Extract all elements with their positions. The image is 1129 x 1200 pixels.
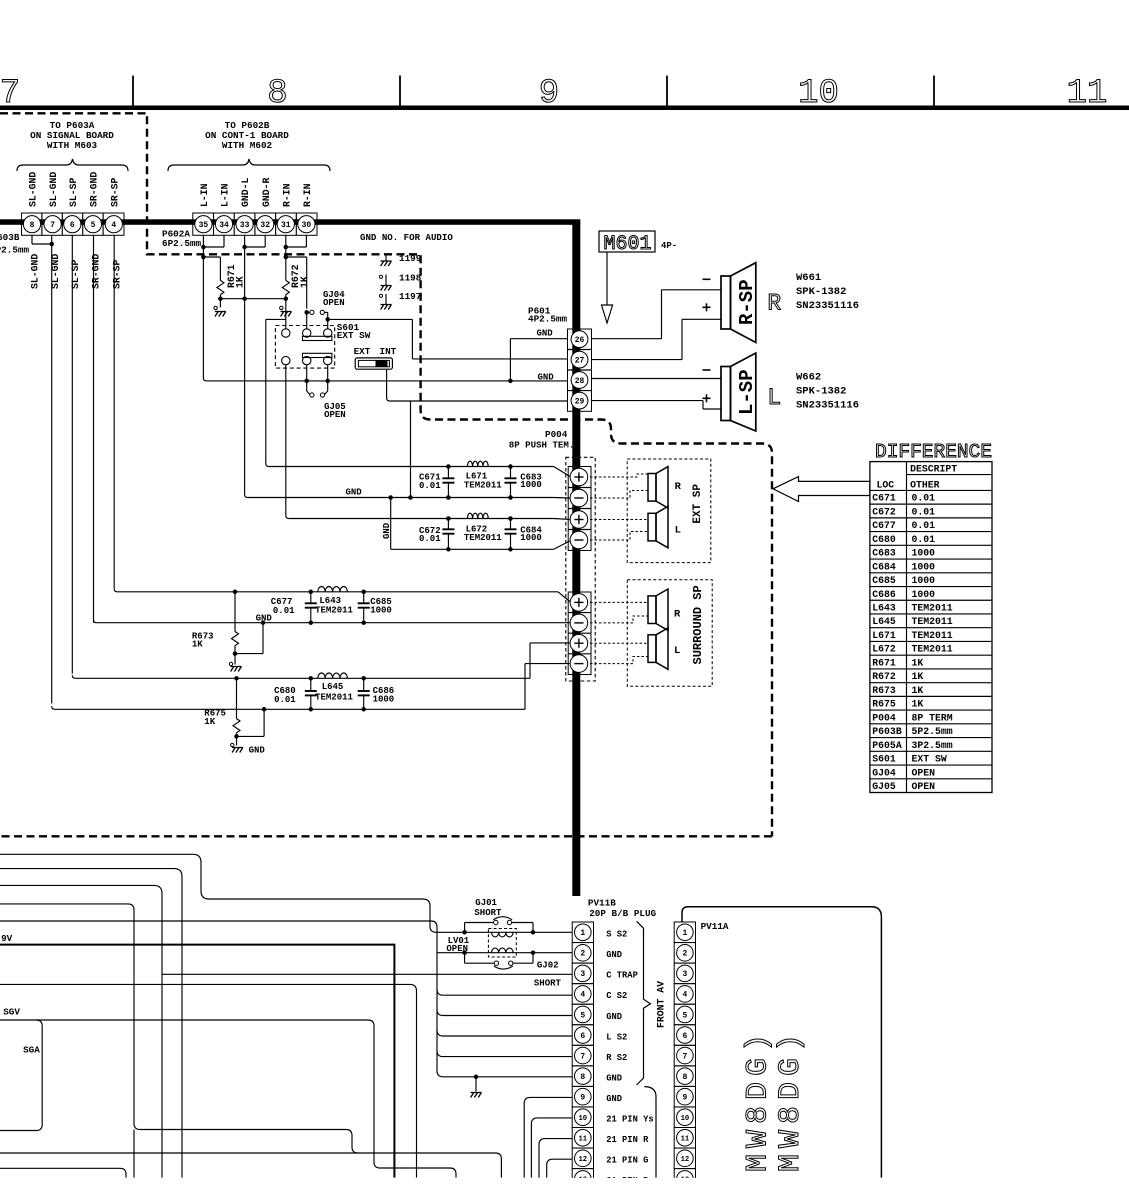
svg-text:OTHER: OTHER: [910, 480, 940, 491]
svg-text:GND: GND: [346, 488, 363, 498]
svg-text:29: 29: [575, 397, 585, 406]
svg-text:0.01: 0.01: [273, 606, 295, 616]
svg-text:C TRAP: C TRAP: [606, 971, 638, 981]
svg-text:GND-R: GND-R: [261, 177, 272, 207]
svg-text:1: 1: [580, 929, 585, 938]
svg-text:DESCRIPT: DESCRIPT: [910, 464, 957, 475]
svg-text:4: 4: [682, 991, 687, 1000]
svg-text:1000: 1000: [373, 694, 395, 704]
svg-text:35: 35: [199, 221, 209, 230]
svg-text:1000: 1000: [912, 575, 936, 586]
svg-text:SR-GND: SR-GND: [89, 172, 100, 207]
svg-text:EXT SP: EXT SP: [692, 484, 704, 524]
svg-text:SL-GND: SL-GND: [48, 172, 59, 207]
svg-text:SL-SP: SL-SP: [70, 259, 81, 289]
svg-text:R: R: [674, 609, 681, 621]
svg-text:6: 6: [682, 1032, 687, 1041]
svg-text:3MW8DG): 3MW8DG): [774, 1028, 808, 1196]
svg-text:27: 27: [575, 356, 585, 365]
svg-text:10: 10: [798, 75, 839, 113]
svg-text:11: 11: [578, 1136, 587, 1144]
svg-text:8P TERM: 8P TERM: [912, 712, 953, 723]
svg-text:SPK-1382: SPK-1382: [796, 286, 846, 298]
svg-text:L-IN: L-IN: [220, 183, 231, 207]
svg-text:W662: W662: [796, 372, 821, 384]
svg-text:C677: C677: [872, 520, 896, 531]
svg-text:SL-SP: SL-SP: [68, 177, 79, 207]
svg-text:1198: 1198: [399, 273, 422, 284]
svg-text:WITH M602: WITH M602: [222, 140, 273, 151]
svg-text:9: 9: [682, 1093, 687, 1102]
svg-text:1000: 1000: [912, 589, 936, 600]
svg-text:TEM2011: TEM2011: [912, 630, 953, 641]
svg-text:GND NO. FOR AUDIO: GND NO. FOR AUDIO: [360, 232, 453, 243]
svg-text:1K: 1K: [299, 276, 310, 288]
svg-text:6: 6: [580, 1032, 585, 1041]
svg-text:C685: C685: [872, 575, 896, 586]
svg-text:R S2: R S2: [606, 1053, 627, 1063]
svg-text:28: 28: [575, 377, 585, 386]
svg-text:SPK-1382: SPK-1382: [796, 386, 846, 398]
svg-text:SR-GND: SR-GND: [91, 254, 102, 289]
svg-text:5: 5: [91, 221, 96, 230]
svg-text:C684: C684: [872, 561, 896, 572]
svg-text:GND: GND: [537, 329, 554, 339]
svg-text:EXT SW: EXT SW: [337, 330, 371, 341]
svg-text:C S2: C S2: [606, 991, 627, 1001]
svg-text:11: 11: [1067, 75, 1108, 113]
svg-text:TEM2011: TEM2011: [464, 533, 502, 543]
svg-text:7: 7: [682, 1052, 687, 1061]
svg-text:GND: GND: [606, 1012, 622, 1022]
svg-text:31: 31: [281, 221, 291, 230]
svg-text:C686: C686: [872, 589, 896, 600]
svg-text:SHORT: SHORT: [474, 908, 502, 918]
svg-text:4: 4: [111, 221, 116, 230]
svg-text:TEM2011: TEM2011: [315, 692, 353, 702]
svg-text:R675: R675: [872, 699, 896, 710]
svg-text:P004: P004: [872, 712, 896, 723]
svg-text:OPEN: OPEN: [324, 410, 346, 420]
svg-text:0.01: 0.01: [912, 534, 936, 545]
svg-text:33: 33: [240, 221, 250, 230]
svg-text:SR-SP: SR-SP: [109, 177, 120, 207]
svg-text:R671: R671: [872, 657, 896, 668]
svg-text:L-SP: L-SP: [736, 369, 758, 415]
svg-text:9: 9: [580, 1093, 585, 1102]
svg-text:0.01: 0.01: [912, 506, 936, 517]
svg-text:21 PIN R: 21 PIN R: [606, 1135, 649, 1145]
svg-text:6: 6: [70, 221, 75, 230]
svg-text:SURROUND SP: SURROUND SP: [691, 585, 705, 664]
svg-text:8: 8: [580, 1073, 585, 1082]
svg-text:1K: 1K: [912, 657, 924, 668]
svg-text:4P2.5mm: 4P2.5mm: [528, 314, 567, 325]
svg-text:1K: 1K: [912, 685, 924, 696]
svg-text:3: 3: [682, 970, 687, 979]
svg-text:0.01: 0.01: [419, 481, 441, 491]
svg-text:1K: 1K: [912, 699, 924, 710]
svg-text:L671: L671: [872, 630, 896, 641]
svg-text:C683: C683: [872, 548, 896, 559]
svg-text:1197: 1197: [399, 291, 421, 302]
svg-text:1199: 1199: [399, 253, 422, 264]
svg-text:9: 9: [539, 75, 559, 113]
svg-text:4: 4: [580, 991, 585, 1000]
svg-text:R-SP: R-SP: [736, 279, 758, 325]
svg-text:20P B/B PLUG: 20P B/B PLUG: [589, 908, 656, 919]
svg-text:0.01: 0.01: [912, 520, 936, 531]
svg-text:PV11A: PV11A: [701, 921, 729, 932]
svg-text:P603B: P603B: [0, 232, 20, 243]
svg-text:SGA: SGA: [23, 1045, 40, 1056]
svg-text:DIFFERENCE: DIFFERENCE: [875, 441, 992, 463]
svg-text:34: 34: [219, 221, 229, 230]
svg-text:L643: L643: [319, 596, 341, 606]
svg-text:GND: GND: [606, 1094, 622, 1104]
svg-text:0.01: 0.01: [419, 534, 441, 544]
svg-text:R673: R673: [872, 685, 896, 696]
svg-text:OPEN: OPEN: [912, 781, 936, 792]
svg-text:5: 5: [682, 1011, 687, 1020]
svg-text:GND: GND: [606, 1073, 622, 1083]
svg-text:1000: 1000: [912, 561, 936, 572]
svg-text:12: 12: [681, 1156, 690, 1164]
svg-text:5P2.5mm: 5P2.5mm: [912, 726, 953, 737]
svg-text:2: 2: [580, 950, 585, 959]
svg-text:3P2.5mm: 3P2.5mm: [912, 740, 953, 751]
svg-text:SL-GND: SL-GND: [30, 254, 41, 289]
svg-text:8: 8: [682, 1073, 687, 1082]
svg-text:P605A: P605A: [872, 740, 902, 751]
svg-text:1K: 1K: [204, 717, 215, 727]
svg-text:GJ04: GJ04: [872, 767, 896, 778]
svg-text:21 PIN G: 21 PIN G: [606, 1156, 648, 1166]
svg-text:R-IN: R-IN: [281, 183, 292, 207]
svg-text:1000: 1000: [912, 548, 936, 559]
svg-text:L645: L645: [322, 682, 344, 692]
svg-text:C672: C672: [872, 506, 896, 517]
svg-text:30: 30: [302, 221, 312, 230]
svg-text:4P-: 4P-: [661, 241, 677, 251]
svg-text:S601: S601: [872, 754, 896, 765]
svg-text:M601: M601: [603, 233, 651, 256]
svg-text:INT: INT: [380, 346, 397, 357]
svg-text:1: 1: [682, 929, 687, 938]
svg-text:3: 3: [580, 970, 585, 979]
svg-text:SL-GND: SL-GND: [28, 172, 39, 207]
svg-text:SGV: SGV: [3, 1007, 20, 1018]
svg-text:R: R: [675, 481, 682, 493]
svg-text:0.01: 0.01: [274, 695, 296, 705]
svg-text:SN23351116: SN23351116: [796, 400, 859, 412]
svg-text:32: 32: [260, 221, 270, 230]
svg-text:L643: L643: [872, 602, 896, 613]
svg-text:5P2.5mm: 5P2.5mm: [0, 245, 29, 256]
svg-text:L: L: [674, 645, 680, 657]
svg-text:GJ02: GJ02: [537, 960, 559, 970]
svg-text:EXT: EXT: [354, 346, 371, 357]
svg-text:GND: GND: [249, 746, 266, 756]
svg-text:L S2: L S2: [606, 1032, 627, 1042]
svg-text:TEM2011: TEM2011: [912, 644, 953, 655]
svg-text:1K: 1K: [192, 640, 203, 650]
svg-text:0.01: 0.01: [912, 493, 936, 504]
svg-text:OPEN: OPEN: [912, 767, 936, 778]
svg-text:P603B: P603B: [872, 726, 902, 737]
svg-text:EXT SW: EXT SW: [912, 754, 947, 765]
svg-text:7: 7: [50, 221, 55, 230]
svg-text:26: 26: [575, 336, 585, 345]
svg-text:10: 10: [681, 1115, 690, 1123]
svg-text:TEM2011: TEM2011: [315, 606, 353, 616]
svg-text:L: L: [767, 385, 781, 411]
svg-text:8: 8: [267, 75, 287, 113]
svg-text:TEM2011: TEM2011: [912, 602, 953, 613]
svg-text:L672: L672: [872, 644, 896, 655]
svg-text:GND-L: GND-L: [240, 177, 251, 207]
svg-text:1K: 1K: [912, 671, 924, 682]
svg-text:LOC: LOC: [877, 480, 895, 491]
svg-text:8: 8: [30, 221, 35, 230]
svg-text:1000: 1000: [370, 606, 392, 616]
svg-text:7: 7: [580, 1052, 585, 1061]
svg-text:8P PUSH TEM.: 8P PUSH TEM.: [509, 440, 575, 451]
svg-text:11: 11: [681, 1136, 690, 1144]
svg-text:6P2.5mm: 6P2.5mm: [162, 238, 201, 249]
svg-text:L-IN: L-IN: [199, 183, 210, 207]
svg-text:10: 10: [578, 1115, 587, 1123]
svg-text:1000: 1000: [520, 480, 542, 490]
svg-text:2: 2: [682, 950, 687, 959]
svg-text:1000: 1000: [520, 533, 542, 543]
svg-text:C680: C680: [872, 534, 896, 545]
svg-text:L: L: [675, 525, 681, 537]
svg-text:GJ05: GJ05: [872, 781, 896, 792]
svg-text:TEM2011: TEM2011: [912, 616, 953, 627]
svg-text:GJ01: GJ01: [475, 898, 497, 908]
svg-text:OPEN: OPEN: [323, 298, 345, 308]
svg-text:SR-SP: SR-SP: [111, 259, 122, 289]
svg-text:R-IN: R-IN: [302, 183, 313, 207]
svg-text:-9V: -9V: [0, 933, 13, 944]
svg-text:1K: 1K: [235, 276, 246, 288]
svg-text:S S2: S S2: [606, 930, 627, 940]
svg-text:GND: GND: [606, 950, 622, 960]
svg-text:GND: GND: [538, 373, 555, 383]
svg-text:WITH M603: WITH M603: [47, 140, 98, 151]
svg-text:C671: C671: [872, 493, 896, 504]
svg-text:P004: P004: [545, 429, 568, 440]
svg-text:2MW8DG): 2MW8DG): [742, 1028, 776, 1196]
svg-text:TEM2011: TEM2011: [464, 480, 502, 490]
svg-text:FRONT AV: FRONT AV: [656, 981, 667, 1028]
svg-text:SN23351116: SN23351116: [796, 300, 859, 312]
svg-text:R: R: [767, 291, 781, 317]
svg-text:SHORT: SHORT: [534, 979, 562, 989]
svg-text:21 PIN Ys: 21 PIN Ys: [606, 1115, 654, 1125]
svg-text:OPEN: OPEN: [446, 944, 468, 954]
svg-text:R672: R672: [872, 671, 896, 682]
svg-text:7: 7: [0, 75, 20, 113]
svg-text:5: 5: [580, 1011, 585, 1020]
svg-text:L645: L645: [872, 616, 896, 627]
svg-text:W661: W661: [796, 272, 821, 284]
svg-text:12: 12: [578, 1156, 587, 1164]
